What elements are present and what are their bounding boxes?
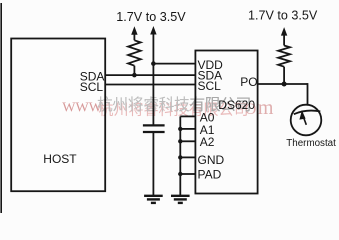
svg-text:1.7V to 3.5V: 1.7V to 3.5V	[248, 9, 318, 23]
svg-text:PO: PO	[240, 75, 257, 89]
svg-text:A2: A2	[200, 135, 215, 149]
svg-text:1.7V to 3.5V: 1.7V to 3.5V	[116, 10, 186, 24]
svg-text:Thermostat: Thermostat	[286, 138, 336, 149]
svg-text:SCL: SCL	[80, 80, 104, 94]
svg-text:GND: GND	[198, 153, 225, 167]
svg-text:有限公司: 有限公司	[189, 96, 251, 114]
svg-text:PAD: PAD	[198, 167, 222, 181]
svg-text:HOST: HOST	[43, 152, 77, 166]
svg-text:SCL: SCL	[198, 79, 222, 93]
